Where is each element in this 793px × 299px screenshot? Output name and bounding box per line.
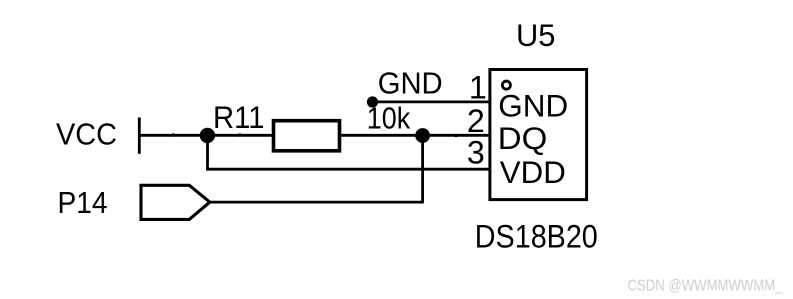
wire to pin 3 VDD [206,168,489,171]
wire node B down [421,135,424,202]
inversion bubble pin 1 [502,81,510,89]
svg-text:CSDN @WWMMWWMM_: CSDN @WWMMWWMM_ [628,277,784,294]
svg-text:U5: U5 [516,17,556,53]
IC U5 body [490,70,587,200]
svg-text:GND: GND [378,65,443,100]
node B junction dot [415,128,430,143]
svg-text:VCC: VCC [56,117,117,152]
svg-text:DQ: DQ [498,120,548,156]
svg-text:VDD: VDD [500,154,566,190]
svg-text:R11: R11 [213,100,265,135]
grid dot on wire [172,133,176,137]
svg-text:GND: GND [498,88,568,124]
port tag P14 [141,185,210,219]
wire resistor to node B [340,134,423,137]
svg-text:3: 3 [467,134,485,170]
grid dot on wire [238,133,242,137]
wire node A down [206,135,209,169]
power terminal VCC (bar) [138,118,141,154]
wire VCC bar to node A [139,134,207,137]
svg-text:P14: P14 [58,185,108,220]
svg-text:1: 1 [469,70,487,106]
svg-text:DS18B20: DS18B20 [475,219,598,255]
node dot GND wire end [367,96,378,107]
wire GND to pin 1 [373,101,490,104]
grid dot on wire [454,134,458,138]
wire node A to resistor [208,134,274,137]
wire P14 to node B column [210,201,424,204]
node A junction dot [200,128,215,143]
resistor R11 body [274,121,340,151]
wire node B to pin 2 [423,134,490,137]
